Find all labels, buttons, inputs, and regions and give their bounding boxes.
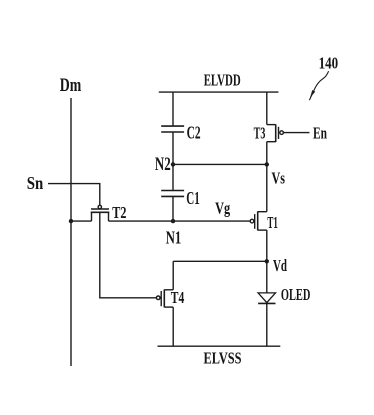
wire OLED cathode to ELVSS — [266, 303, 268, 346]
wire Sn scan line (horizontal then down to T2 gate) — [48, 184, 100, 206]
wire Vs to T1 drain — [266, 164, 268, 211]
node N1 junction dot — [171, 219, 175, 223]
wire ELVDD down to T3 drain — [266, 92, 268, 125]
wire T2 drain to N1 and T1 gate — [109, 220, 251, 222]
wire Vd to OLED anode — [266, 261, 268, 293]
junction dot on Dm at T2 source — [69, 219, 73, 223]
wire C2 to node N2 — [172, 132, 174, 191]
svg-text:Vg: Vg — [215, 199, 230, 218]
wire T3 gate to En — [284, 132, 310, 134]
wire ELVDD to C2 — [172, 92, 174, 126]
wire T4 drain vertical — [172, 261, 174, 290]
leader arrow for 140 — [309, 71, 328, 100]
transistor T2 — [91, 205, 110, 221]
transistor T4 — [156, 290, 173, 308]
junction dot at Vd — [265, 259, 269, 263]
wire N2 to T3 source / Vs node — [173, 163, 267, 165]
wire Sn branch down to T4 gate — [100, 212, 157, 297]
junction dot at Vs / N2 line — [265, 162, 269, 166]
svg-text:OLED: OLED — [281, 285, 311, 304]
svg-text:Vs: Vs — [271, 169, 285, 188]
svg-text:C2: C2 — [187, 123, 201, 143]
transistor T1 — [250, 211, 267, 230]
wire T4 source to ELVSS — [172, 307, 174, 346]
transistor T3 — [267, 124, 284, 142]
diode OLED — [258, 293, 275, 304]
capacitor C2 — [161, 126, 184, 132]
wire Dm data line (vertical) — [70, 98, 72, 366]
power rail ELVSS — [158, 345, 281, 347]
svg-text:N2: N2 — [155, 155, 171, 175]
wire T1 source down to Vd — [266, 230, 268, 261]
svg-text:T1: T1 — [267, 213, 278, 232]
svg-text:140: 140 — [319, 54, 339, 73]
wire C1 to node N1 — [172, 196, 174, 221]
svg-text:Vd: Vd — [273, 256, 287, 275]
svg-text:ELVSS: ELVSS — [204, 349, 242, 368]
svg-text:T4: T4 — [171, 288, 185, 307]
svg-text:ELVDD: ELVDD — [204, 70, 241, 89]
svg-text:Dm: Dm — [60, 76, 82, 96]
wire T3 source to Vs junction — [266, 142, 268, 165]
node N2 junction dot — [171, 162, 175, 166]
svg-text:T2: T2 — [112, 203, 126, 222]
svg-text:N1: N1 — [166, 227, 182, 247]
svg-text:En: En — [313, 123, 327, 142]
svg-text:Sn: Sn — [27, 173, 44, 193]
svg-text:T3: T3 — [254, 123, 266, 142]
wire Vd to T4 drain (horizontal) — [173, 260, 267, 262]
capacitor C1 — [161, 191, 184, 197]
power rail ELVDD — [159, 91, 279, 93]
wire Dm to T2 source — [71, 220, 92, 222]
svg-text:C1: C1 — [186, 188, 200, 208]
